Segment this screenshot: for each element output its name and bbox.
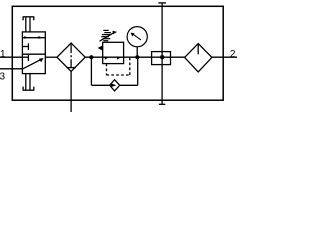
svg-text:1: 1: [0, 49, 6, 60]
svg-text:3: 3: [0, 72, 6, 83]
svg-text:2: 2: [230, 49, 236, 60]
